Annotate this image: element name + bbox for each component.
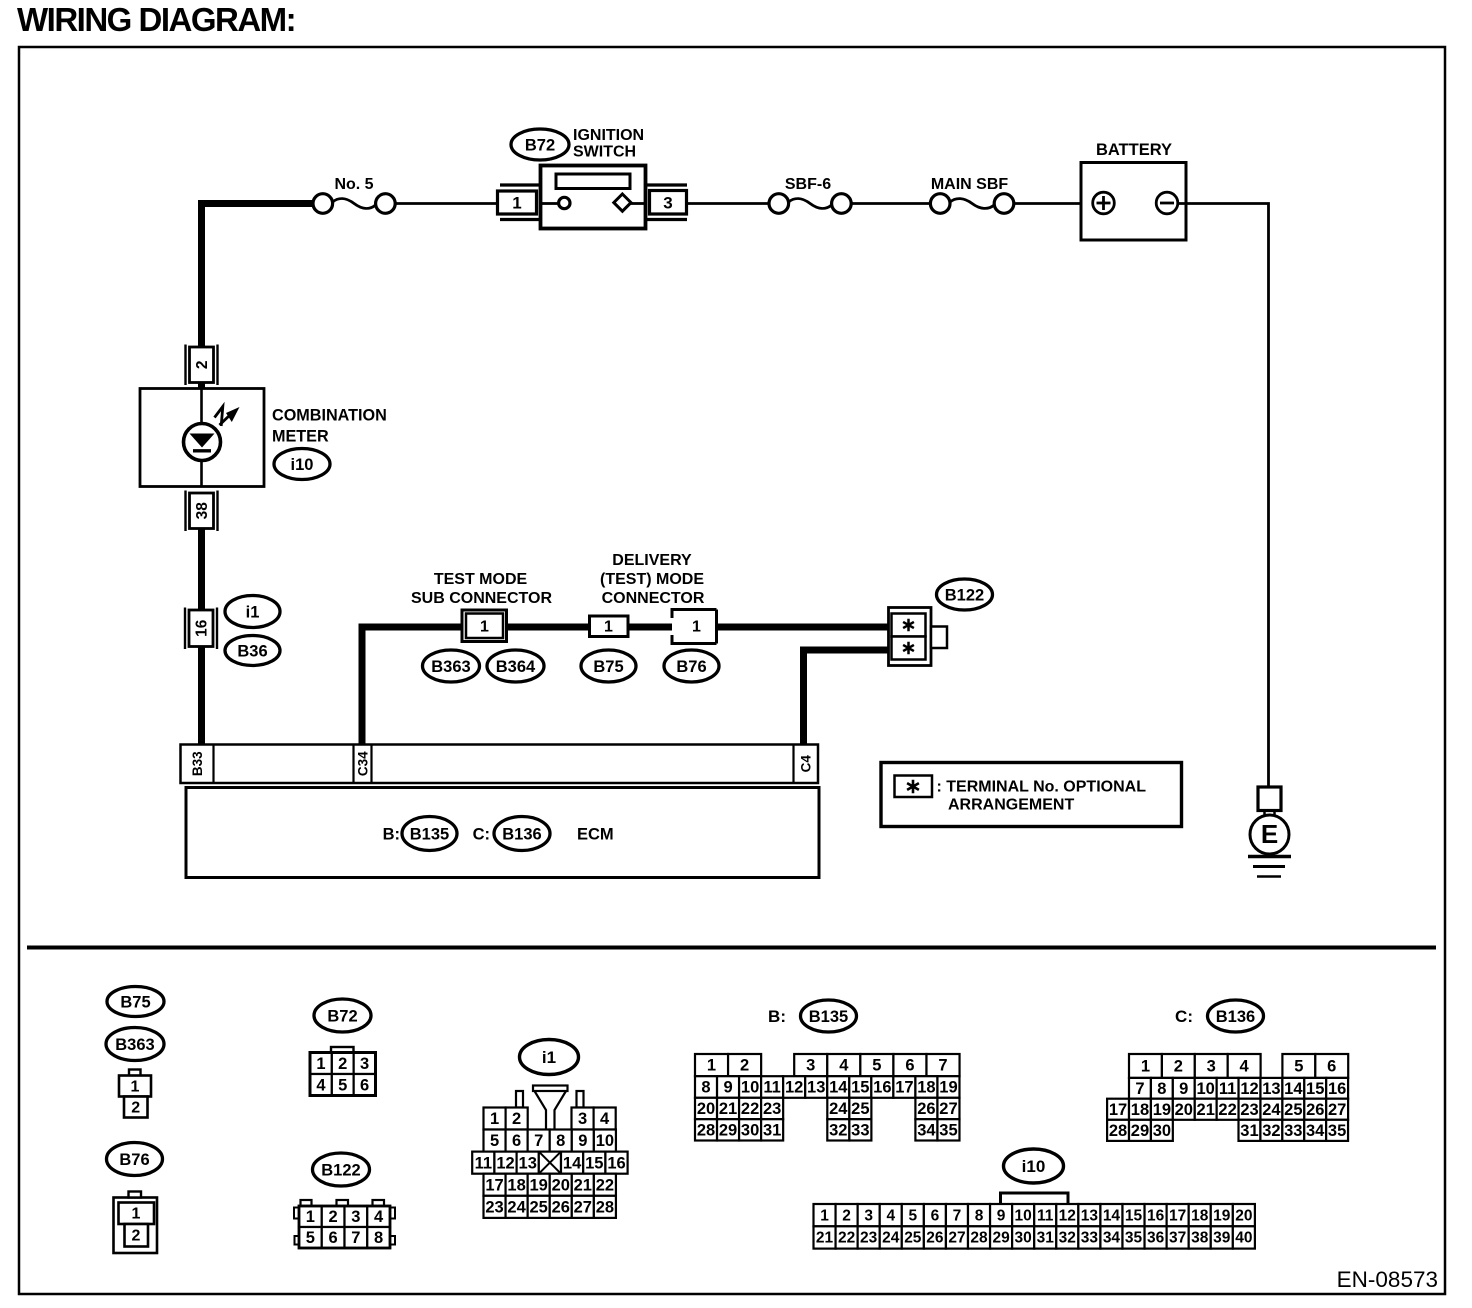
connector B363 pinout (119, 1070, 151, 1118)
svg-text:C:: C: (473, 826, 490, 844)
label TEST MODE SUB CONNECTOR (411, 571, 552, 607)
svg-text:16: 16 (873, 1079, 891, 1097)
svg-text:18: 18 (1191, 1207, 1209, 1224)
svg-text:6: 6 (931, 1207, 940, 1224)
svg-text:30: 30 (1015, 1230, 1032, 1247)
svg-text:i10: i10 (1022, 1157, 1046, 1176)
svg-text:35: 35 (1125, 1230, 1143, 1247)
wire: B76 to B122 (717, 624, 889, 631)
svg-text:5: 5 (909, 1207, 918, 1224)
svg-text:1: 1 (131, 1079, 140, 1096)
svg-text:15: 15 (1125, 1207, 1143, 1224)
svg-text:IGNITION: IGNITION (573, 127, 644, 144)
svg-text:9: 9 (1179, 1080, 1188, 1098)
svg-text:B36: B36 (237, 642, 267, 660)
svg-text:C34: C34 (356, 751, 371, 776)
svg-text:6: 6 (512, 1132, 521, 1150)
svg-text:2: 2 (131, 1100, 140, 1117)
svg-text:28: 28 (596, 1199, 614, 1217)
svg-text:37: 37 (1169, 1230, 1186, 1247)
svg-text:21: 21 (719, 1100, 737, 1118)
svg-text:BATTERY: BATTERY (1096, 141, 1172, 159)
delivery mode connector B75 (590, 616, 629, 637)
svg-text:11: 11 (1037, 1207, 1054, 1224)
connector B122 pinout grid (294, 1200, 395, 1248)
connector B135 pinout grid (695, 1054, 960, 1141)
ignition switch pin 3 (646, 185, 688, 220)
connector oval B75 (581, 650, 636, 682)
svg-text:35: 35 (1328, 1122, 1346, 1140)
svg-text:33: 33 (1284, 1122, 1302, 1140)
svg-text:9: 9 (578, 1132, 587, 1150)
svg-text:38: 38 (1191, 1230, 1209, 1247)
svg-text:6: 6 (360, 1076, 369, 1094)
svg-text:13: 13 (1081, 1207, 1099, 1224)
svg-text:21: 21 (574, 1176, 592, 1194)
svg-text:25: 25 (904, 1230, 922, 1247)
svg-text:B122: B122 (945, 586, 984, 604)
svg-text:2: 2 (338, 1055, 347, 1073)
svg-text:26: 26 (917, 1100, 935, 1118)
wire: pin 16 to ECM B33 (198, 647, 205, 747)
wire: battery negative to ground, right side (1178, 204, 1269, 788)
svg-text:B135: B135 (410, 825, 449, 843)
label IGNITION SWITCH (573, 127, 644, 161)
connector oval i10 (274, 449, 330, 480)
svg-text:18: 18 (1131, 1101, 1149, 1119)
svg-text:10: 10 (596, 1132, 614, 1150)
legend: terminal no. optional arrangement (881, 763, 1182, 827)
svg-text:B33: B33 (190, 751, 205, 776)
svg-text:31: 31 (1037, 1230, 1055, 1247)
svg-text:12: 12 (1059, 1207, 1076, 1224)
connector oval B364 (487, 650, 544, 682)
svg-text:35: 35 (939, 1122, 957, 1140)
wire: B122 to ECM C4, thick (804, 650, 889, 746)
wire: pin 38 down (198, 529, 205, 612)
joint connector pin 16 (184, 608, 186, 650)
svg-text:B136: B136 (1216, 1008, 1255, 1026)
svg-text:9: 9 (723, 1079, 732, 1097)
svg-text:12: 12 (1240, 1080, 1258, 1098)
fuse MAIN SBF (930, 176, 1013, 213)
svg-text:1: 1 (820, 1207, 829, 1224)
svg-text:20: 20 (552, 1176, 570, 1194)
wire: test connector to delivery connector (507, 624, 591, 631)
svg-text:5: 5 (338, 1076, 347, 1094)
svg-text:27: 27 (939, 1100, 957, 1118)
svg-text:1: 1 (604, 619, 613, 636)
wire: pin 2 to meter (198, 383, 205, 390)
ECM box (186, 788, 819, 878)
svg-text:21: 21 (816, 1230, 834, 1247)
svg-text:3: 3 (806, 1057, 815, 1075)
ground E (1248, 787, 1291, 877)
svg-text:24: 24 (882, 1230, 900, 1247)
svg-text:3: 3 (360, 1055, 369, 1073)
svg-text:4: 4 (374, 1208, 384, 1226)
svg-text:2: 2 (194, 360, 211, 369)
svg-text:14: 14 (563, 1154, 582, 1172)
svg-text:7: 7 (1135, 1080, 1144, 1098)
connector i1 pinout (472, 1086, 627, 1218)
test mode sub connector (462, 610, 507, 642)
svg-text:13: 13 (1262, 1080, 1280, 1098)
svg-text:24: 24 (507, 1199, 526, 1217)
svg-text:33: 33 (1081, 1230, 1099, 1247)
svg-text:16: 16 (1328, 1080, 1346, 1098)
svg-text:1: 1 (316, 1055, 325, 1073)
connector oval B135 (pinout) (801, 1000, 857, 1032)
connector oval B363 (pinout) (106, 1028, 164, 1061)
svg-text:11: 11 (763, 1079, 780, 1097)
svg-text:E: E (1261, 819, 1278, 849)
svg-text:7: 7 (938, 1057, 947, 1075)
svg-text:25: 25 (851, 1100, 869, 1118)
svg-text:2: 2 (132, 1228, 141, 1245)
svg-text:27: 27 (1328, 1101, 1346, 1119)
svg-text:20: 20 (1175, 1101, 1193, 1119)
svg-text:5: 5 (872, 1057, 881, 1075)
svg-text:5: 5 (490, 1132, 499, 1150)
connector oval B136 (pinout) (1208, 1000, 1264, 1032)
svg-text:7: 7 (534, 1132, 543, 1150)
svg-text:13: 13 (519, 1154, 537, 1172)
svg-text:32: 32 (829, 1122, 847, 1140)
svg-text:B75: B75 (593, 658, 623, 676)
svg-text:38: 38 (194, 502, 211, 520)
svg-text:25: 25 (529, 1199, 547, 1217)
svg-text:5: 5 (306, 1229, 315, 1247)
svg-text:4: 4 (316, 1076, 326, 1094)
wire: SBF-6 to MAIN SBF (851, 202, 930, 205)
svg-text:4: 4 (600, 1110, 610, 1128)
svg-text:1: 1 (480, 619, 489, 636)
svg-text:3: 3 (864, 1207, 873, 1224)
svg-text:28: 28 (697, 1122, 715, 1140)
svg-text:ECM: ECM (577, 826, 614, 844)
combination meter pin 38 (184, 491, 186, 532)
connector B76 pinout (114, 1192, 158, 1254)
svg-text:8: 8 (556, 1132, 565, 1150)
svg-text:WIRING DIAGRAM:: WIRING DIAGRAM: (17, 1, 295, 38)
svg-text:15: 15 (851, 1079, 869, 1097)
connector B122 with optional terminals (889, 608, 948, 666)
svg-text:EN-08573: EN-08573 (1337, 1267, 1438, 1292)
connector oval i1 (pinout) (520, 1040, 579, 1075)
svg-text:B76: B76 (676, 658, 706, 676)
delivery connector B76 (672, 608, 717, 645)
svg-text:14: 14 (829, 1079, 848, 1097)
svg-text:26: 26 (1306, 1101, 1324, 1119)
svg-text:B135: B135 (809, 1008, 848, 1026)
svg-text:32: 32 (1262, 1122, 1280, 1140)
svg-text:(TEST) MODE: (TEST) MODE (600, 571, 704, 588)
svg-text:28: 28 (1109, 1122, 1127, 1140)
svg-text:14: 14 (1103, 1207, 1121, 1224)
svg-text:24: 24 (1262, 1101, 1281, 1119)
svg-text:19: 19 (529, 1176, 547, 1194)
svg-text:26: 26 (926, 1230, 944, 1247)
label DELIVERY (TEST) MODE CONNECTOR (600, 552, 705, 607)
connector oval B122 (937, 579, 993, 610)
svg-text:B136: B136 (502, 825, 541, 843)
svg-text:23: 23 (763, 1100, 781, 1118)
svg-text:6: 6 (905, 1057, 914, 1075)
LED indicator lamp (184, 424, 221, 461)
svg-text:1: 1 (707, 1057, 716, 1075)
svg-text:: TERMINAL No. OPTIONAL: : TERMINAL No. OPTIONAL (937, 779, 1147, 796)
connector oval B76 (664, 650, 719, 682)
svg-text:34: 34 (1306, 1122, 1325, 1140)
svg-text:2: 2 (842, 1207, 851, 1224)
battery (1081, 141, 1186, 240)
svg-text:20: 20 (697, 1100, 715, 1118)
svg-text:13: 13 (807, 1079, 825, 1097)
svg-text:8: 8 (374, 1229, 383, 1247)
svg-text:22: 22 (596, 1176, 614, 1194)
connector oval B72 (pinout) (314, 999, 371, 1032)
svg-text:No. 5: No. 5 (334, 176, 373, 193)
svg-text:i1: i1 (246, 603, 260, 621)
svg-text:10: 10 (1015, 1207, 1032, 1224)
svg-text:SBF-6: SBF-6 (785, 176, 831, 193)
svg-text:15: 15 (1306, 1080, 1324, 1098)
connector oval B36 (225, 636, 280, 666)
svg-text:2: 2 (329, 1208, 338, 1226)
svg-text:7: 7 (953, 1207, 962, 1224)
svg-text:MAIN SBF: MAIN SBF (931, 176, 1009, 193)
wire: fuse to ignition switch pin 1 (395, 202, 497, 205)
connector B136 pinout grid (1107, 1054, 1348, 1141)
svg-text:16: 16 (607, 1154, 625, 1172)
svg-text:11: 11 (475, 1154, 492, 1172)
svg-text:17: 17 (1169, 1207, 1186, 1224)
svg-text:23: 23 (860, 1230, 878, 1247)
wire: battery feed top-left, thick (202, 204, 314, 348)
connector oval B136 (ECM) (494, 817, 550, 851)
combination meter pin 2 (184, 345, 186, 386)
svg-text:1: 1 (692, 619, 701, 636)
fuse No. 5 (313, 176, 395, 213)
svg-text:40: 40 (1235, 1230, 1252, 1247)
svg-text:9: 9 (997, 1207, 1006, 1224)
svg-text:29: 29 (719, 1122, 737, 1140)
svg-text:B364: B364 (496, 658, 536, 676)
svg-text:33: 33 (851, 1122, 869, 1140)
svg-text:3: 3 (578, 1110, 587, 1128)
svg-text:36: 36 (1147, 1230, 1165, 1247)
svg-text:8: 8 (701, 1079, 710, 1097)
svg-text:23: 23 (1240, 1101, 1258, 1119)
svg-text:4: 4 (1240, 1058, 1250, 1076)
svg-text:4: 4 (886, 1207, 895, 1224)
svg-text:12: 12 (496, 1154, 514, 1172)
svg-text:1: 1 (512, 193, 521, 212)
svg-text:31: 31 (763, 1122, 781, 1140)
svg-text:B363: B363 (115, 1036, 154, 1054)
svg-text:DELIVERY: DELIVERY (612, 552, 692, 569)
svg-text:1: 1 (1141, 1058, 1150, 1076)
svg-text:2: 2 (740, 1057, 749, 1075)
svg-text:6: 6 (1327, 1058, 1336, 1076)
connector oval i1 (225, 596, 280, 628)
svg-text:10: 10 (741, 1079, 759, 1097)
svg-text:39: 39 (1213, 1230, 1231, 1247)
svg-text:30: 30 (741, 1122, 759, 1140)
combination meter (140, 389, 264, 487)
svg-text:B72: B72 (525, 136, 555, 154)
svg-text:29: 29 (992, 1230, 1010, 1247)
connector i10 pinout (814, 1193, 1255, 1249)
svg-text:COMBINATION: COMBINATION (272, 407, 387, 425)
svg-text:14: 14 (1284, 1080, 1303, 1098)
svg-text:B363: B363 (431, 658, 470, 676)
svg-text:24: 24 (829, 1100, 848, 1118)
svg-text:2: 2 (512, 1110, 521, 1128)
svg-text:28: 28 (970, 1230, 988, 1247)
svg-text:B72: B72 (327, 1007, 357, 1025)
svg-text:SUB CONNECTOR: SUB CONNECTOR (411, 590, 552, 607)
section divider (27, 946, 1436, 950)
connector oval B76 (pinout) (107, 1143, 163, 1176)
connector B72 pinout grid (310, 1047, 376, 1096)
svg-text:30: 30 (1153, 1122, 1171, 1140)
svg-text:B76: B76 (119, 1151, 149, 1169)
svg-text:B:: B: (768, 1007, 786, 1026)
wire: MAIN SBF to battery (1014, 202, 1094, 205)
connector oval B135 (ECM) (402, 817, 457, 851)
label COMBINATION METER (272, 407, 387, 446)
svg-text:1: 1 (490, 1110, 499, 1128)
svg-text:17: 17 (485, 1176, 503, 1194)
svg-text:SWITCH: SWITCH (573, 144, 636, 161)
svg-text:22: 22 (741, 1100, 759, 1118)
svg-text:7: 7 (351, 1229, 360, 1247)
svg-text:i10: i10 (291, 456, 314, 474)
svg-text:B122: B122 (321, 1161, 360, 1179)
ECM connector strip with B33 C34 C4 (181, 745, 819, 784)
svg-text:18: 18 (507, 1176, 525, 1194)
svg-text:23: 23 (485, 1199, 503, 1217)
svg-text:C:: C: (1175, 1007, 1193, 1026)
svg-text:i1: i1 (542, 1048, 556, 1067)
svg-text:B75: B75 (120, 993, 150, 1011)
svg-text:25: 25 (1284, 1101, 1302, 1119)
svg-text:1: 1 (132, 1206, 141, 1223)
svg-text:8: 8 (975, 1207, 984, 1224)
svg-text:3: 3 (351, 1208, 360, 1226)
connector oval B363 (423, 650, 480, 682)
svg-text:16: 16 (193, 619, 210, 637)
svg-text:17: 17 (1109, 1101, 1127, 1119)
svg-text:29: 29 (1131, 1122, 1149, 1140)
svg-text:10: 10 (1197, 1080, 1215, 1098)
svg-text:15: 15 (585, 1154, 603, 1172)
svg-text:TEST MODE: TEST MODE (434, 571, 528, 588)
svg-text:CONNECTOR: CONNECTOR (602, 590, 705, 607)
ignition switch B72 (541, 166, 646, 229)
svg-text:17: 17 (895, 1079, 913, 1097)
fuse SBF-6 (769, 176, 851, 213)
svg-text:32: 32 (1059, 1230, 1076, 1247)
svg-text:11: 11 (1219, 1080, 1236, 1098)
svg-text:C4: C4 (799, 755, 814, 773)
svg-text:12: 12 (785, 1079, 803, 1097)
svg-text:27: 27 (574, 1199, 592, 1217)
svg-text:1: 1 (306, 1208, 315, 1226)
connector oval B75 (pinout) (107, 987, 164, 1017)
svg-text:16: 16 (1147, 1207, 1165, 1224)
svg-text:26: 26 (552, 1199, 570, 1217)
svg-text:31: 31 (1240, 1122, 1258, 1140)
svg-text:19: 19 (1153, 1101, 1171, 1119)
wire: ECM C34 up and right to test connectors, thick (362, 627, 463, 746)
svg-text:22: 22 (1218, 1101, 1236, 1119)
svg-text:18: 18 (917, 1079, 935, 1097)
svg-text:19: 19 (939, 1079, 957, 1097)
svg-text:3: 3 (663, 193, 672, 212)
svg-text:3: 3 (1207, 1058, 1216, 1076)
svg-text:19: 19 (1213, 1207, 1231, 1224)
connector oval i10 (pinout) (1004, 1149, 1064, 1183)
svg-text:ARRANGEMENT: ARRANGEMENT (948, 797, 1074, 814)
connector oval B122 (pinout) (313, 1153, 370, 1186)
svg-text:4: 4 (839, 1057, 849, 1075)
svg-text:6: 6 (329, 1229, 338, 1247)
svg-text:22: 22 (838, 1230, 855, 1247)
svg-text:34: 34 (1103, 1230, 1121, 1247)
svg-text:20: 20 (1235, 1207, 1252, 1224)
LED emission arrows (215, 407, 240, 427)
svg-text:METER: METER (272, 428, 329, 446)
svg-text:5: 5 (1294, 1058, 1303, 1076)
connector oval B72 (511, 129, 569, 160)
svg-text:8: 8 (1157, 1080, 1166, 1098)
svg-text:34: 34 (917, 1122, 936, 1140)
svg-text:21: 21 (1197, 1101, 1215, 1119)
wire: pin 3 to SBF-6 (687, 202, 769, 205)
ignition switch pin 1 (498, 185, 542, 220)
svg-text:B:: B: (383, 826, 400, 844)
svg-text:2: 2 (1174, 1058, 1183, 1076)
wire: B75 to B76 (628, 624, 672, 631)
svg-text:27: 27 (948, 1230, 965, 1247)
